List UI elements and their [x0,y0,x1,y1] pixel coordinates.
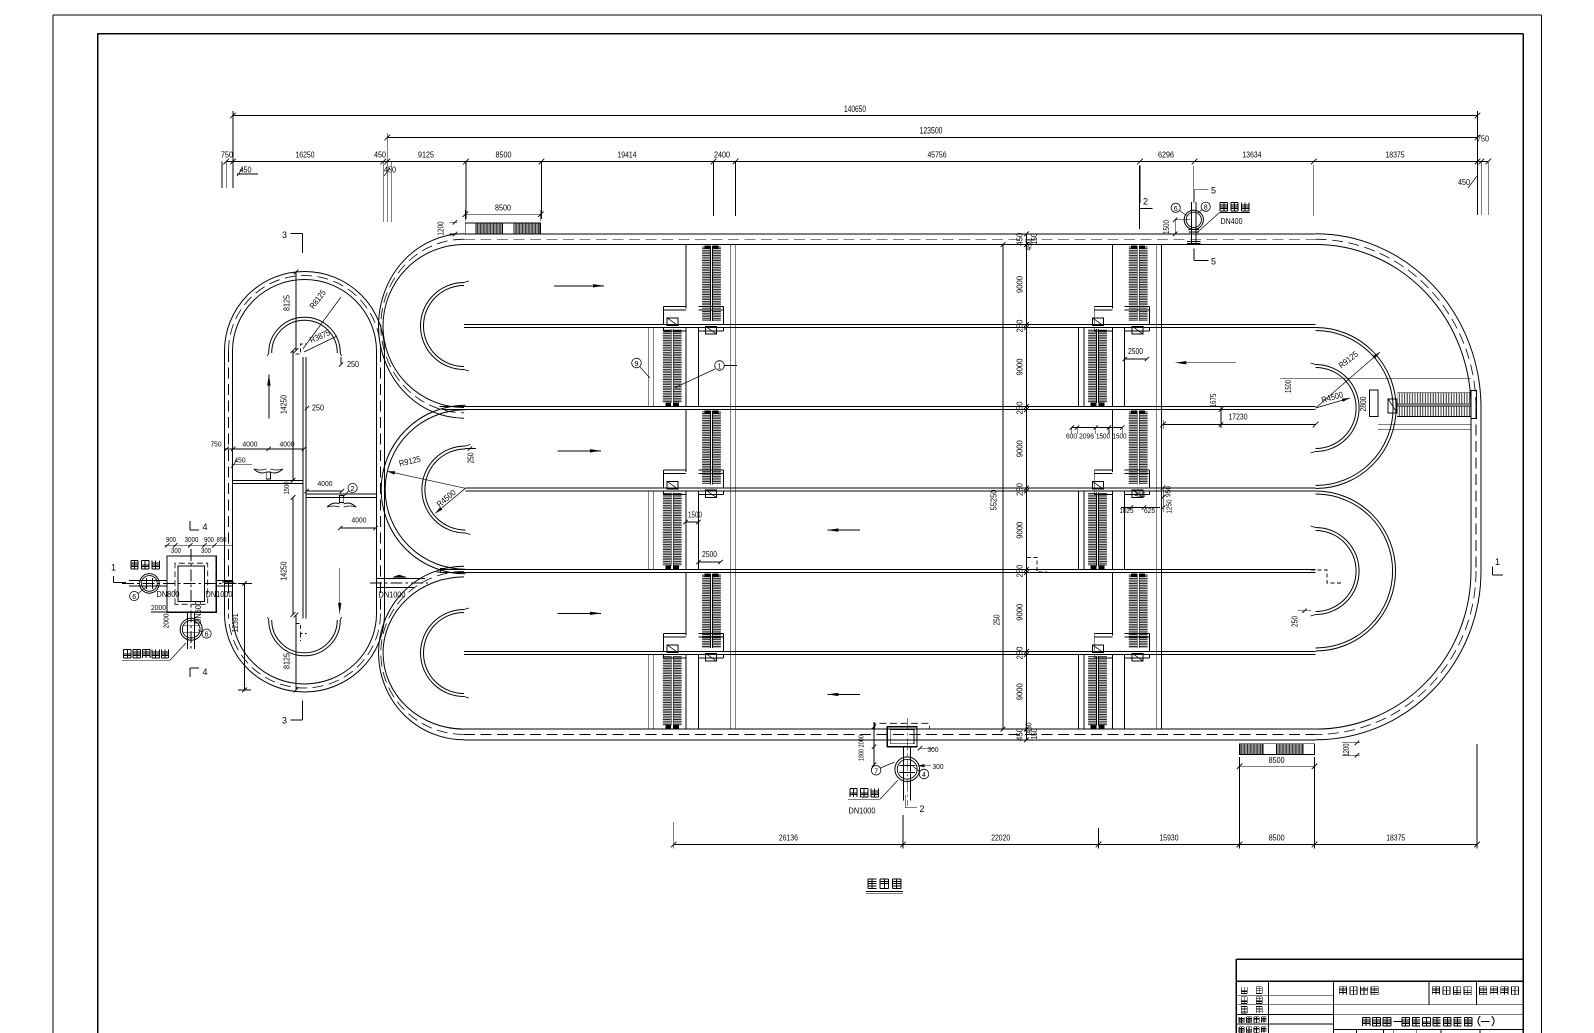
label PingMianTu (plan view title) [866,879,903,893]
circled 8 drain [1198,202,1211,213]
flow arrow ch3 [558,449,601,452]
svg-text:300: 300 [933,762,944,771]
radius leader R9125 right U [1316,349,1380,408]
wall w5 [464,652,1316,655]
svg-text:7: 7 [874,768,878,775]
radius leader R4500 right U [1316,389,1350,408]
svg-text:DN1000: DN1000 [206,590,233,599]
svg-text:300: 300 [201,548,211,555]
baffle R4500 left at w1 [421,281,470,371]
svg-text:450: 450 [1458,177,1470,187]
ditch left lobe top (outer U wall ch1/ch2) [379,234,464,418]
circled 9 bay [632,358,650,378]
svg-text:DN1000: DN1000 [379,591,406,600]
wall w3 [465,488,1315,491]
brush aerator col1 ch6 [663,645,682,728]
svg-text:250: 250 [347,360,359,369]
svg-text:300: 300 [928,745,939,754]
svg-text:2: 2 [919,804,924,814]
inlet pipe DN800 [122,581,252,587]
svg-text:13634: 13634 [1243,150,1262,160]
svg-text:1800: 1800 [857,749,866,761]
svg-text:1: 1 [1495,557,1500,567]
svg-text:3: 3 [282,716,287,726]
baffle R4500 right at w2 [1311,363,1360,453]
circled 1 brush [675,361,737,388]
small arrow inlet box [222,580,234,582]
svg-text:250: 250 [467,452,476,463]
svg-text:5: 5 [1211,257,1216,267]
brush aerator col2 ch5 [1129,574,1148,661]
flow arrow ch2 [1175,361,1236,364]
break mark oval top [296,344,307,354]
svg-text:250: 250 [1015,401,1025,414]
label jinshuiguan (inlet pipe) [131,561,160,569]
baffle R4500 left at w5 [421,608,469,698]
circled 7 outlet [871,762,894,775]
circled 6 drain [1171,203,1186,215]
radius label 250 right [0,0,1,1]
svg-text:150: 150 [1030,728,1039,739]
svg-text:26136: 26136 [779,833,798,843]
mixer symbol top cell [254,469,283,479]
svg-text:450: 450 [1015,728,1025,741]
svg-text:1500: 1500 [1096,432,1110,441]
svg-text:8500: 8500 [1269,755,1285,765]
brush aerator col1 ch4 [663,481,682,568]
svg-text:900: 900 [166,537,176,544]
svg-text:1200: 1200 [1341,743,1351,756]
svg-text:9000: 9000 [1015,683,1025,700]
right brush dims [1280,378,1471,429]
mixer symbol bottom cell [327,496,356,508]
dim row 600 2096 1500 1500 [1066,425,1127,440]
svg-text:2500: 2500 [702,550,717,559]
circled 6 inlet [130,587,146,601]
flow arrow oval down [338,568,341,614]
dim chain bottom [671,744,1480,849]
brush aerator col1 ch3 [702,411,721,498]
oval layout dims [211,440,378,531]
svg-text:9000: 9000 [1015,603,1025,620]
section mark 2 top [1140,166,1153,229]
svg-text:DN800: DN800 [157,590,181,599]
svg-text:1500: 1500 [688,511,702,520]
svg-text:4000: 4000 [280,440,295,449]
radius leader R9125 middle lobe [387,454,465,489]
svg-text:14250: 14250 [279,561,289,580]
svg-text:1250: 1250 [1165,500,1174,514]
circled 6 sludge [198,629,211,639]
svg-text:4000: 4000 [243,440,258,449]
inlet box centerline [190,549,192,649]
top comb dim 8500 [436,203,544,237]
svg-text:1: 1 [111,563,116,573]
svg-text:2: 2 [1143,197,1148,207]
baffle R4500 left at w3 [422,445,471,535]
aerator platforms col2 [1094,306,1149,658]
label chushuiguan (outlet pipe) [848,780,898,799]
svg-text:4: 4 [922,772,926,779]
svg-text:1500: 1500 [1162,220,1171,234]
svg-text:150: 150 [1030,233,1039,244]
svg-text:250: 250 [1015,646,1025,659]
oval bottom baffle R3875 [268,617,342,656]
label 250 ch5 right [991,614,1001,625]
svg-text:450: 450 [240,165,252,175]
label DN1000 inlet [206,590,233,599]
ditch left lobe bottom (outer U wall ch5/ch6) [379,566,464,740]
svg-text:15930: 15930 [1160,833,1179,843]
svg-text:2000: 2000 [151,603,166,612]
svg-text:850: 850 [217,537,227,544]
brush aerator col2 ch3 [1129,411,1148,498]
dim 12391 [230,581,251,692]
brush aerator col2 ch2 [1088,318,1107,406]
section mark 2 bottom [905,795,924,814]
ditch left lobe middle (outer U wall ch3/ch4) [381,405,465,574]
svg-text:8: 8 [1204,205,1208,212]
label DN800 [157,590,181,599]
svg-text:900: 900 [204,537,214,544]
right U wall at w2 (ch2/ch3 turn) [1316,328,1397,489]
pipe DN1000 to ditch [370,575,428,599]
svg-text:1: 1 [718,364,722,371]
svg-text:9000: 9000 [1015,521,1025,538]
bottom comb dim 8500 [1237,741,1360,771]
inlet distribution box [167,556,216,612]
dim 2500 col1 [696,550,723,564]
drain pipe DN400 vertical [1187,166,1201,244]
drain dim 1500 [1162,218,1190,236]
flow arrow ch4 [827,528,859,531]
section mark 3 bottom [282,701,303,726]
svg-text:250: 250 [1015,483,1025,496]
svg-text:9125: 9125 [418,150,434,160]
svg-text:6: 6 [132,594,136,601]
anaerobic tank oval outer wall [225,272,385,693]
svg-text:123500: 123500 [920,126,943,136]
section mark 4 bottom [190,667,208,677]
return sludge valve [180,618,202,640]
wall w2 [440,407,1316,410]
right channel brush aerator [1369,390,1476,418]
baffle R4500 right at w4 [1311,526,1360,616]
section mark 3 top [282,230,303,253]
flow arrow oval up [267,375,270,419]
svg-text:8125: 8125 [282,653,292,669]
brush aerator col1 ch2 [663,318,682,406]
wall w1 [464,325,1316,328]
svg-text:450: 450 [374,150,386,160]
svg-text:1500: 1500 [282,482,291,495]
dim 17230 [1160,412,1318,430]
svg-text:250: 250 [1015,564,1025,577]
section mark 1 right [1493,557,1503,575]
circled 4 outlet [913,767,929,780]
svg-text:6: 6 [205,632,209,639]
brush aerator col2 ch1 [1129,246,1148,334]
svg-text:18375: 18375 [1386,833,1405,843]
svg-text:3000: 3000 [185,537,199,544]
oval radius dims [279,270,360,693]
svg-text:250: 250 [991,614,1001,625]
svg-text:6: 6 [1174,206,1178,213]
svg-text:6296: 6296 [1158,150,1174,160]
svg-text:1675: 1675 [1209,393,1218,407]
svg-text:2096: 2096 [1079,432,1094,441]
svg-text:2: 2 [351,486,355,493]
svg-text:8125: 8125 [282,295,292,311]
oval left divider wall [233,480,303,483]
dim chain 123500 [385,126,1481,162]
svg-text:12391: 12391 [230,613,240,632]
bottom weir comb 8500 [1240,744,1315,755]
svg-text:2500: 2500 [1128,347,1143,356]
wall w4 [440,570,1316,573]
svg-text:9: 9 [635,361,639,368]
flow arrow ch1 [554,284,604,287]
aerator bay columns col1 [648,245,736,730]
svg-text:9000: 9000 [1015,440,1025,457]
svg-text:16250: 16250 [296,150,315,160]
svg-text:2000: 2000 [162,614,171,629]
ditch outer corners [1316,234,1481,740]
aerator bay columns col2 [1079,245,1162,730]
svg-text:DN600: DN600 [194,600,203,624]
brush aerator col2 ch4 [1088,481,1107,568]
label huiliu wuni guan (return sludge) [122,643,186,660]
svg-text:DN1000: DN1000 [849,807,876,816]
svg-text:4000: 4000 [318,479,333,488]
dims 950 1250 1025 625 [1120,485,1174,515]
section mark 5 top [1194,186,1216,203]
radius leader R4500 middle lobe [434,487,465,513]
svg-text:14250: 14250 [279,395,289,414]
svg-text:950: 950 [1164,486,1173,497]
svg-text:140650: 140650 [844,104,866,114]
oval right divider wall [306,494,377,497]
svg-text:750: 750 [1477,134,1489,144]
svg-text:250: 250 [1015,319,1025,332]
vertical dim 55250 [989,242,1006,731]
svg-text:600: 600 [1066,432,1077,441]
svg-text:45756: 45756 [928,150,947,160]
svg-text:22020: 22020 [991,833,1010,843]
svg-text:750: 750 [211,440,222,449]
oval top baffle R3875 [268,317,342,356]
svg-text:9000: 9000 [1015,358,1025,375]
svg-text:8500: 8500 [495,203,511,213]
svg-text:4: 4 [202,667,207,677]
svg-text:2800: 2800 [1358,396,1368,411]
outlet valve [895,757,920,782]
svg-text:8500: 8500 [1269,833,1285,843]
radius label 250 middle baffle [465,446,476,463]
svg-text:3: 3 [282,230,287,240]
svg-text:1200: 1200 [436,221,446,235]
inlet gate valve [140,574,160,594]
brush aerator col2 ch6 [1088,645,1107,728]
anaerobic tank center wall [303,357,306,618]
svg-text:450: 450 [235,456,246,465]
svg-text:2400: 2400 [714,150,730,160]
aerator platforms col1 [664,306,724,658]
right U wall at w4 (ch4/ch5 turn) [1316,491,1396,651]
svg-text:19414: 19414 [618,150,637,160]
brush aerator col1 ch1 [702,246,721,334]
svg-text:5: 5 [1211,186,1216,196]
label fangkongguan (drain pipe) [1197,203,1250,233]
break mark oval bottom [296,624,307,642]
svg-text:17230: 17230 [1229,412,1248,422]
svg-text:DN400: DN400 [1221,217,1243,226]
svg-text:1500: 1500 [1283,380,1293,393]
svg-text:300: 300 [171,548,181,555]
inlet dims [151,537,232,629]
svg-text:18375: 18375 [1386,150,1405,160]
flow arrow ch5 [558,612,601,615]
brush aerator col1 ch5 [702,574,721,661]
outlet dims [857,722,944,771]
step mark lobe cusp [437,569,445,573]
label DN600 [194,600,203,624]
svg-text:250: 250 [312,404,324,413]
svg-text:8500: 8500 [496,150,512,160]
svg-text:55250: 55250 [989,489,999,510]
svg-text:4: 4 [202,522,207,532]
svg-text:455: 455 [1135,492,1146,499]
section mark 5 bottom [1194,249,1216,267]
vertical dim chain 9000s [1015,231,1040,742]
return sludge pipe vertical [187,612,194,649]
section mark 4 top [190,521,208,532]
break mark w4 right [1311,570,1343,583]
dim 1500 col1 [683,511,702,525]
title block [1236,959,1523,1033]
circled 2 mixer [343,483,357,497]
top weir comb 8500 [465,223,541,234]
break mark w4 mid [1027,558,1047,573]
svg-text:2000,: 2000, [857,734,866,748]
dim chain top segments [221,134,1491,223]
dim 2500 col2 [1123,347,1150,361]
svg-text:750: 750 [221,150,233,160]
svg-text:450: 450 [1015,232,1025,245]
svg-text:1500: 1500 [1113,432,1127,441]
ditch outer straight walls [464,234,1481,740]
label DN1000 outlet [849,807,876,816]
flow arrow ch6 [827,693,859,696]
section mark 1 left [111,563,126,583]
dim 1675 [1209,393,1223,428]
dim chain 140650 [230,104,1480,215]
svg-text:4000: 4000 [352,516,367,525]
svg-text:250: 250 [1291,616,1300,627]
label 250 right baffle w4 [1291,609,1312,627]
outlet box and pipe [875,718,930,806]
svg-text:9000: 9000 [1015,276,1025,293]
drain valve [1184,210,1203,229]
